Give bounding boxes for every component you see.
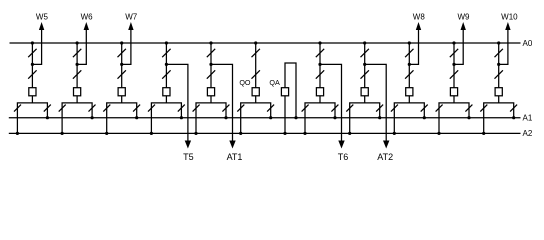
node on A0 (cell 11) bbox=[497, 41, 500, 44]
net label A0 bbox=[523, 39, 533, 48]
node on A0 (cell 5) bbox=[209, 41, 212, 44]
wire: QA left leg to A2 bbox=[284, 96, 286, 134]
wire: module left leg to A2 (cell 5) bbox=[195, 118, 197, 134]
wire: tap hook to arrow W8 bbox=[409, 29, 418, 65]
wire: module left leg to A2 (cell 11) bbox=[483, 118, 485, 134]
node on A2 (cell 5) bbox=[194, 132, 197, 135]
module slash right (cell 7) bbox=[331, 105, 338, 112]
wire: cell 10 branch from A0 down to fuse bbox=[453, 43, 455, 88]
fuse QA bbox=[281, 88, 288, 96]
wire: cell 2 branch from A0 down to fuse bbox=[76, 43, 78, 88]
arrow head W10 bbox=[505, 22, 510, 30]
module slash left (cell 3) bbox=[103, 105, 110, 112]
contact slash lower (cell 3) bbox=[118, 70, 126, 78]
node on A2 (cell 1) bbox=[16, 132, 19, 135]
fuse (cell 7) bbox=[316, 88, 323, 96]
node on A1 (cell 1) bbox=[46, 116, 49, 119]
wire: module left leg to A2 (cell 4) bbox=[150, 118, 152, 134]
wire: fuse to module (cell 10) bbox=[453, 96, 455, 103]
switch module box (cell 9) bbox=[394, 103, 424, 118]
wire: QA bridge loop bbox=[285, 63, 296, 118]
module slash left (cell 1) bbox=[14, 105, 21, 112]
contact slash upper (cell 2) bbox=[73, 49, 81, 57]
svg-text:AT1: AT1 bbox=[227, 152, 243, 162]
node on A2 (cell 3) bbox=[105, 132, 108, 135]
terminal label T6 bbox=[338, 152, 349, 162]
wire: cell 4 branch from A0 down to fuse bbox=[165, 43, 167, 88]
node: tap junction (cell 8) bbox=[363, 63, 366, 66]
svg-text:T6: T6 bbox=[338, 152, 349, 162]
wire: tap hook down to arrow T6 bbox=[320, 64, 342, 141]
switch module box (cell 4) bbox=[151, 103, 181, 118]
contact slash upper (cell 5) bbox=[207, 49, 215, 57]
wire: fuse to module (cell 5) bbox=[210, 96, 212, 103]
contact slash upper (cell 9) bbox=[405, 49, 413, 57]
wire: cell 8 branch from A0 down to fuse bbox=[364, 43, 366, 88]
node: tap junction (cell 7) bbox=[318, 63, 321, 66]
node on A0 (cell 6) bbox=[254, 41, 257, 44]
arrow head W7 bbox=[128, 22, 133, 30]
node: tap junction (cell 11) bbox=[497, 63, 500, 66]
switch module box (cell 7) bbox=[305, 103, 335, 118]
fuse (cell 8) bbox=[361, 88, 368, 96]
terminal label W6 bbox=[81, 12, 94, 21]
node on A2 (cell 6) bbox=[239, 132, 242, 135]
switch module box (cell 8) bbox=[350, 103, 380, 118]
module slash right (cell 2) bbox=[89, 105, 96, 112]
node on A2 (cell 11) bbox=[482, 132, 485, 135]
node: QA on A1 bbox=[294, 116, 297, 119]
module slash right (cell 8) bbox=[376, 105, 383, 112]
node: QA on A2 bbox=[283, 132, 286, 135]
module slash right (cell 1) bbox=[44, 105, 51, 112]
wire: module left leg to A2 (cell 8) bbox=[349, 118, 351, 134]
wire: tap hook to arrow W7 bbox=[122, 29, 131, 65]
node: tap junction (cell 3) bbox=[120, 63, 123, 66]
wire: fuse to module (cell 3) bbox=[121, 96, 123, 103]
fuse (cell 3) bbox=[118, 88, 125, 96]
arrow head AT1 bbox=[229, 141, 235, 149]
contact slash upper (cell 3) bbox=[118, 49, 126, 57]
wire: module left leg to A2 (cell 7) bbox=[304, 118, 306, 134]
svg-text:AT2: AT2 bbox=[377, 152, 393, 162]
node on A2 (cell 2) bbox=[61, 132, 64, 135]
wire: tap hook down to arrow AT1 bbox=[211, 64, 233, 141]
module slash left (cell 11) bbox=[480, 105, 487, 112]
node on A0 (cell 4) bbox=[165, 41, 168, 44]
arrow head W9 bbox=[461, 22, 466, 30]
wire: tap hook to arrow W5 bbox=[32, 29, 41, 65]
fuse (cell 2) bbox=[74, 88, 81, 96]
module slash right (cell 4) bbox=[178, 105, 185, 112]
terminal label AT2 bbox=[377, 152, 393, 162]
module slash left (cell 5) bbox=[193, 105, 200, 112]
contact slash lower (cell 8) bbox=[361, 70, 369, 78]
wire: module left leg to A2 (cell 9) bbox=[393, 118, 395, 134]
wire: fuse to module (cell 2) bbox=[76, 96, 78, 103]
node on A0 (cell 2) bbox=[76, 41, 79, 44]
module slash left (cell 10) bbox=[436, 105, 443, 112]
terminal label T5 bbox=[183, 152, 194, 162]
wire: fuse to module (cell 6) bbox=[255, 96, 257, 103]
wire: fuse to module (cell 1) bbox=[31, 96, 33, 103]
switch module box (cell 2) bbox=[62, 103, 92, 118]
node on A1 (cell 7) bbox=[333, 116, 336, 119]
module slash left (cell 4) bbox=[148, 105, 155, 112]
node on A1 (cell 11) bbox=[512, 116, 515, 119]
wire: cell 1 branch from A0 down to fuse bbox=[31, 43, 33, 88]
module slash right (cell 9) bbox=[421, 105, 428, 112]
node on A1 (cell 2) bbox=[91, 116, 94, 119]
terminal label AT1 bbox=[227, 152, 243, 162]
wire: cell 5 branch from A0 down to fuse bbox=[210, 43, 212, 88]
bus A0 bbox=[10, 42, 521, 44]
node: tap junction (cell 5) bbox=[209, 63, 212, 66]
node: tap junction (cell 9) bbox=[408, 63, 411, 66]
node on A1 (cell 8) bbox=[378, 116, 381, 119]
wire: fuse to module (cell 8) bbox=[364, 96, 366, 103]
node: tap junction (cell 10) bbox=[452, 63, 455, 66]
svg-text:W6: W6 bbox=[81, 12, 94, 21]
wire: cell 6 branch from A0 down to fuse bbox=[255, 43, 257, 88]
node on A1 (cell 9) bbox=[423, 116, 426, 119]
arrow head W8 bbox=[416, 22, 421, 30]
module slash left (cell 7) bbox=[302, 105, 309, 112]
arrow head AT2 bbox=[383, 141, 389, 149]
terminal label W9 bbox=[458, 12, 471, 21]
contact slash lower (cell 7) bbox=[316, 70, 324, 78]
wire: cell 11 branch from A0 down to fuse bbox=[498, 43, 500, 88]
arrow head W6 bbox=[84, 22, 89, 30]
module slash left (cell 6) bbox=[237, 105, 244, 112]
switch module box (cell 10) bbox=[439, 103, 469, 118]
svg-text:W10: W10 bbox=[501, 12, 518, 21]
node on A1 (cell 10) bbox=[467, 116, 470, 119]
module slash left (cell 2) bbox=[59, 105, 66, 112]
node on A2 (cell 10) bbox=[437, 132, 440, 135]
terminal label W5 bbox=[36, 12, 49, 21]
node on A0 (cell 1) bbox=[31, 41, 34, 44]
node on A2 (cell 4) bbox=[150, 132, 153, 135]
fuse (cell 4) bbox=[163, 88, 170, 96]
node on A0 (cell 7) bbox=[318, 41, 321, 44]
wire: fuse to module (cell 9) bbox=[408, 96, 410, 103]
contact slash upper (cell 1) bbox=[28, 49, 36, 57]
contact slash lower (cell 6) bbox=[252, 70, 260, 78]
contact slash upper (cell 10) bbox=[450, 49, 458, 57]
switch module box (cell 5) bbox=[196, 103, 226, 118]
terminal label W10 bbox=[501, 12, 518, 21]
wire: cell 7 branch from A0 down to fuse bbox=[319, 43, 321, 88]
contact slash upper (cell 6) bbox=[252, 49, 260, 57]
fuse designator label QA bbox=[269, 78, 280, 87]
fuse (cell 6) bbox=[252, 88, 259, 96]
node: tap junction (cell 2) bbox=[76, 63, 79, 66]
arrow head W5 bbox=[39, 22, 44, 30]
wire: cell 9 branch from A0 down to fuse bbox=[408, 43, 410, 88]
wire: tap hook down to arrow T5 bbox=[166, 64, 188, 141]
switch module box (cell 3) bbox=[107, 103, 137, 118]
contact slash upper (cell 8) bbox=[361, 49, 369, 57]
contact slash upper (cell 7) bbox=[316, 49, 324, 57]
fuse (cell 9) bbox=[406, 88, 413, 96]
module slash left (cell 9) bbox=[391, 105, 398, 112]
switch module box (cell 1) bbox=[17, 103, 47, 118]
wire: cell 3 branch from A0 down to fuse bbox=[121, 43, 123, 88]
node on A0 (cell 10) bbox=[452, 41, 455, 44]
contact slash lower (cell 10) bbox=[450, 70, 458, 78]
wire: tap hook down to arrow AT2 bbox=[365, 64, 387, 141]
contact slash lower (cell 1) bbox=[28, 70, 36, 78]
svg-text:W7: W7 bbox=[125, 12, 138, 21]
contact slash upper (cell 11) bbox=[495, 49, 503, 57]
net label A2 bbox=[523, 129, 533, 138]
svg-text:W5: W5 bbox=[36, 12, 49, 21]
arrow head T5 bbox=[185, 141, 191, 149]
contact slash lower (cell 11) bbox=[495, 70, 503, 78]
terminal label W7 bbox=[125, 12, 138, 21]
svg-text:A2: A2 bbox=[523, 129, 533, 138]
fuse (cell 1) bbox=[29, 88, 36, 96]
module slash left (cell 8) bbox=[346, 105, 353, 112]
wire: module left leg to A2 (cell 3) bbox=[106, 118, 108, 134]
switch module box (cell 11) bbox=[484, 103, 514, 118]
wire: fuse to module (cell 7) bbox=[319, 96, 321, 103]
node: tap junction (cell 4) bbox=[165, 63, 168, 66]
svg-text:T5: T5 bbox=[183, 152, 194, 162]
terminal label W8 bbox=[413, 12, 426, 21]
wire: module left leg to A2 (cell 10) bbox=[438, 118, 440, 134]
module slash right (cell 3) bbox=[133, 105, 140, 112]
wire: fuse to module (cell 11) bbox=[498, 96, 500, 103]
contact slash lower (cell 4) bbox=[162, 70, 170, 78]
wire: module left leg to A2 (cell 2) bbox=[61, 118, 63, 134]
svg-text:W9: W9 bbox=[458, 12, 471, 21]
svg-text:A0: A0 bbox=[523, 39, 533, 48]
svg-text:W8: W8 bbox=[413, 12, 426, 21]
module slash right (cell 11) bbox=[510, 105, 517, 112]
wire: tap hook to arrow W9 bbox=[454, 29, 463, 65]
fuse (cell 11) bbox=[495, 88, 502, 96]
contact slash upper (cell 4) bbox=[162, 49, 170, 57]
module slash right (cell 5) bbox=[222, 105, 229, 112]
svg-text:A1: A1 bbox=[523, 114, 533, 123]
contact slash lower (cell 5) bbox=[207, 70, 215, 78]
bus A2 bbox=[9, 132, 521, 134]
node on A2 (cell 8) bbox=[348, 132, 351, 135]
node on A1 (cell 6) bbox=[269, 116, 272, 119]
arrow head T6 bbox=[338, 141, 344, 149]
wire: tap hook to arrow W10 bbox=[499, 29, 508, 65]
node on A0 (cell 3) bbox=[120, 41, 123, 44]
fuse (cell 10) bbox=[450, 88, 457, 96]
wire: module left leg to A2 (cell 6) bbox=[240, 118, 242, 134]
bus A1 bbox=[9, 117, 521, 119]
node on A1 (cell 3) bbox=[135, 116, 138, 119]
wire: module left leg to A2 (cell 1) bbox=[16, 118, 18, 134]
switch module box (cell 6) bbox=[241, 103, 271, 118]
wire: tap hook to arrow W6 bbox=[77, 29, 86, 65]
net label A1 bbox=[523, 114, 533, 123]
contact slash lower (cell 9) bbox=[405, 70, 413, 78]
wire: fuse to module (cell 4) bbox=[165, 96, 167, 103]
node on A0 (cell 9) bbox=[408, 41, 411, 44]
node on A2 (cell 9) bbox=[393, 132, 396, 135]
svg-text:QA: QA bbox=[269, 78, 280, 87]
node on A1 (cell 4) bbox=[180, 116, 183, 119]
node on A2 (cell 7) bbox=[303, 132, 306, 135]
module slash right (cell 10) bbox=[465, 105, 472, 112]
module slash right (cell 6) bbox=[267, 105, 274, 112]
fuse (cell 5) bbox=[207, 88, 214, 96]
svg-text:QO: QO bbox=[239, 78, 251, 87]
node: tap junction (cell 1) bbox=[31, 63, 34, 66]
node on A0 (cell 8) bbox=[363, 41, 366, 44]
fuse designator label QO bbox=[239, 78, 251, 87]
node on A1 (cell 5) bbox=[224, 116, 227, 119]
contact slash lower (cell 2) bbox=[73, 70, 81, 78]
